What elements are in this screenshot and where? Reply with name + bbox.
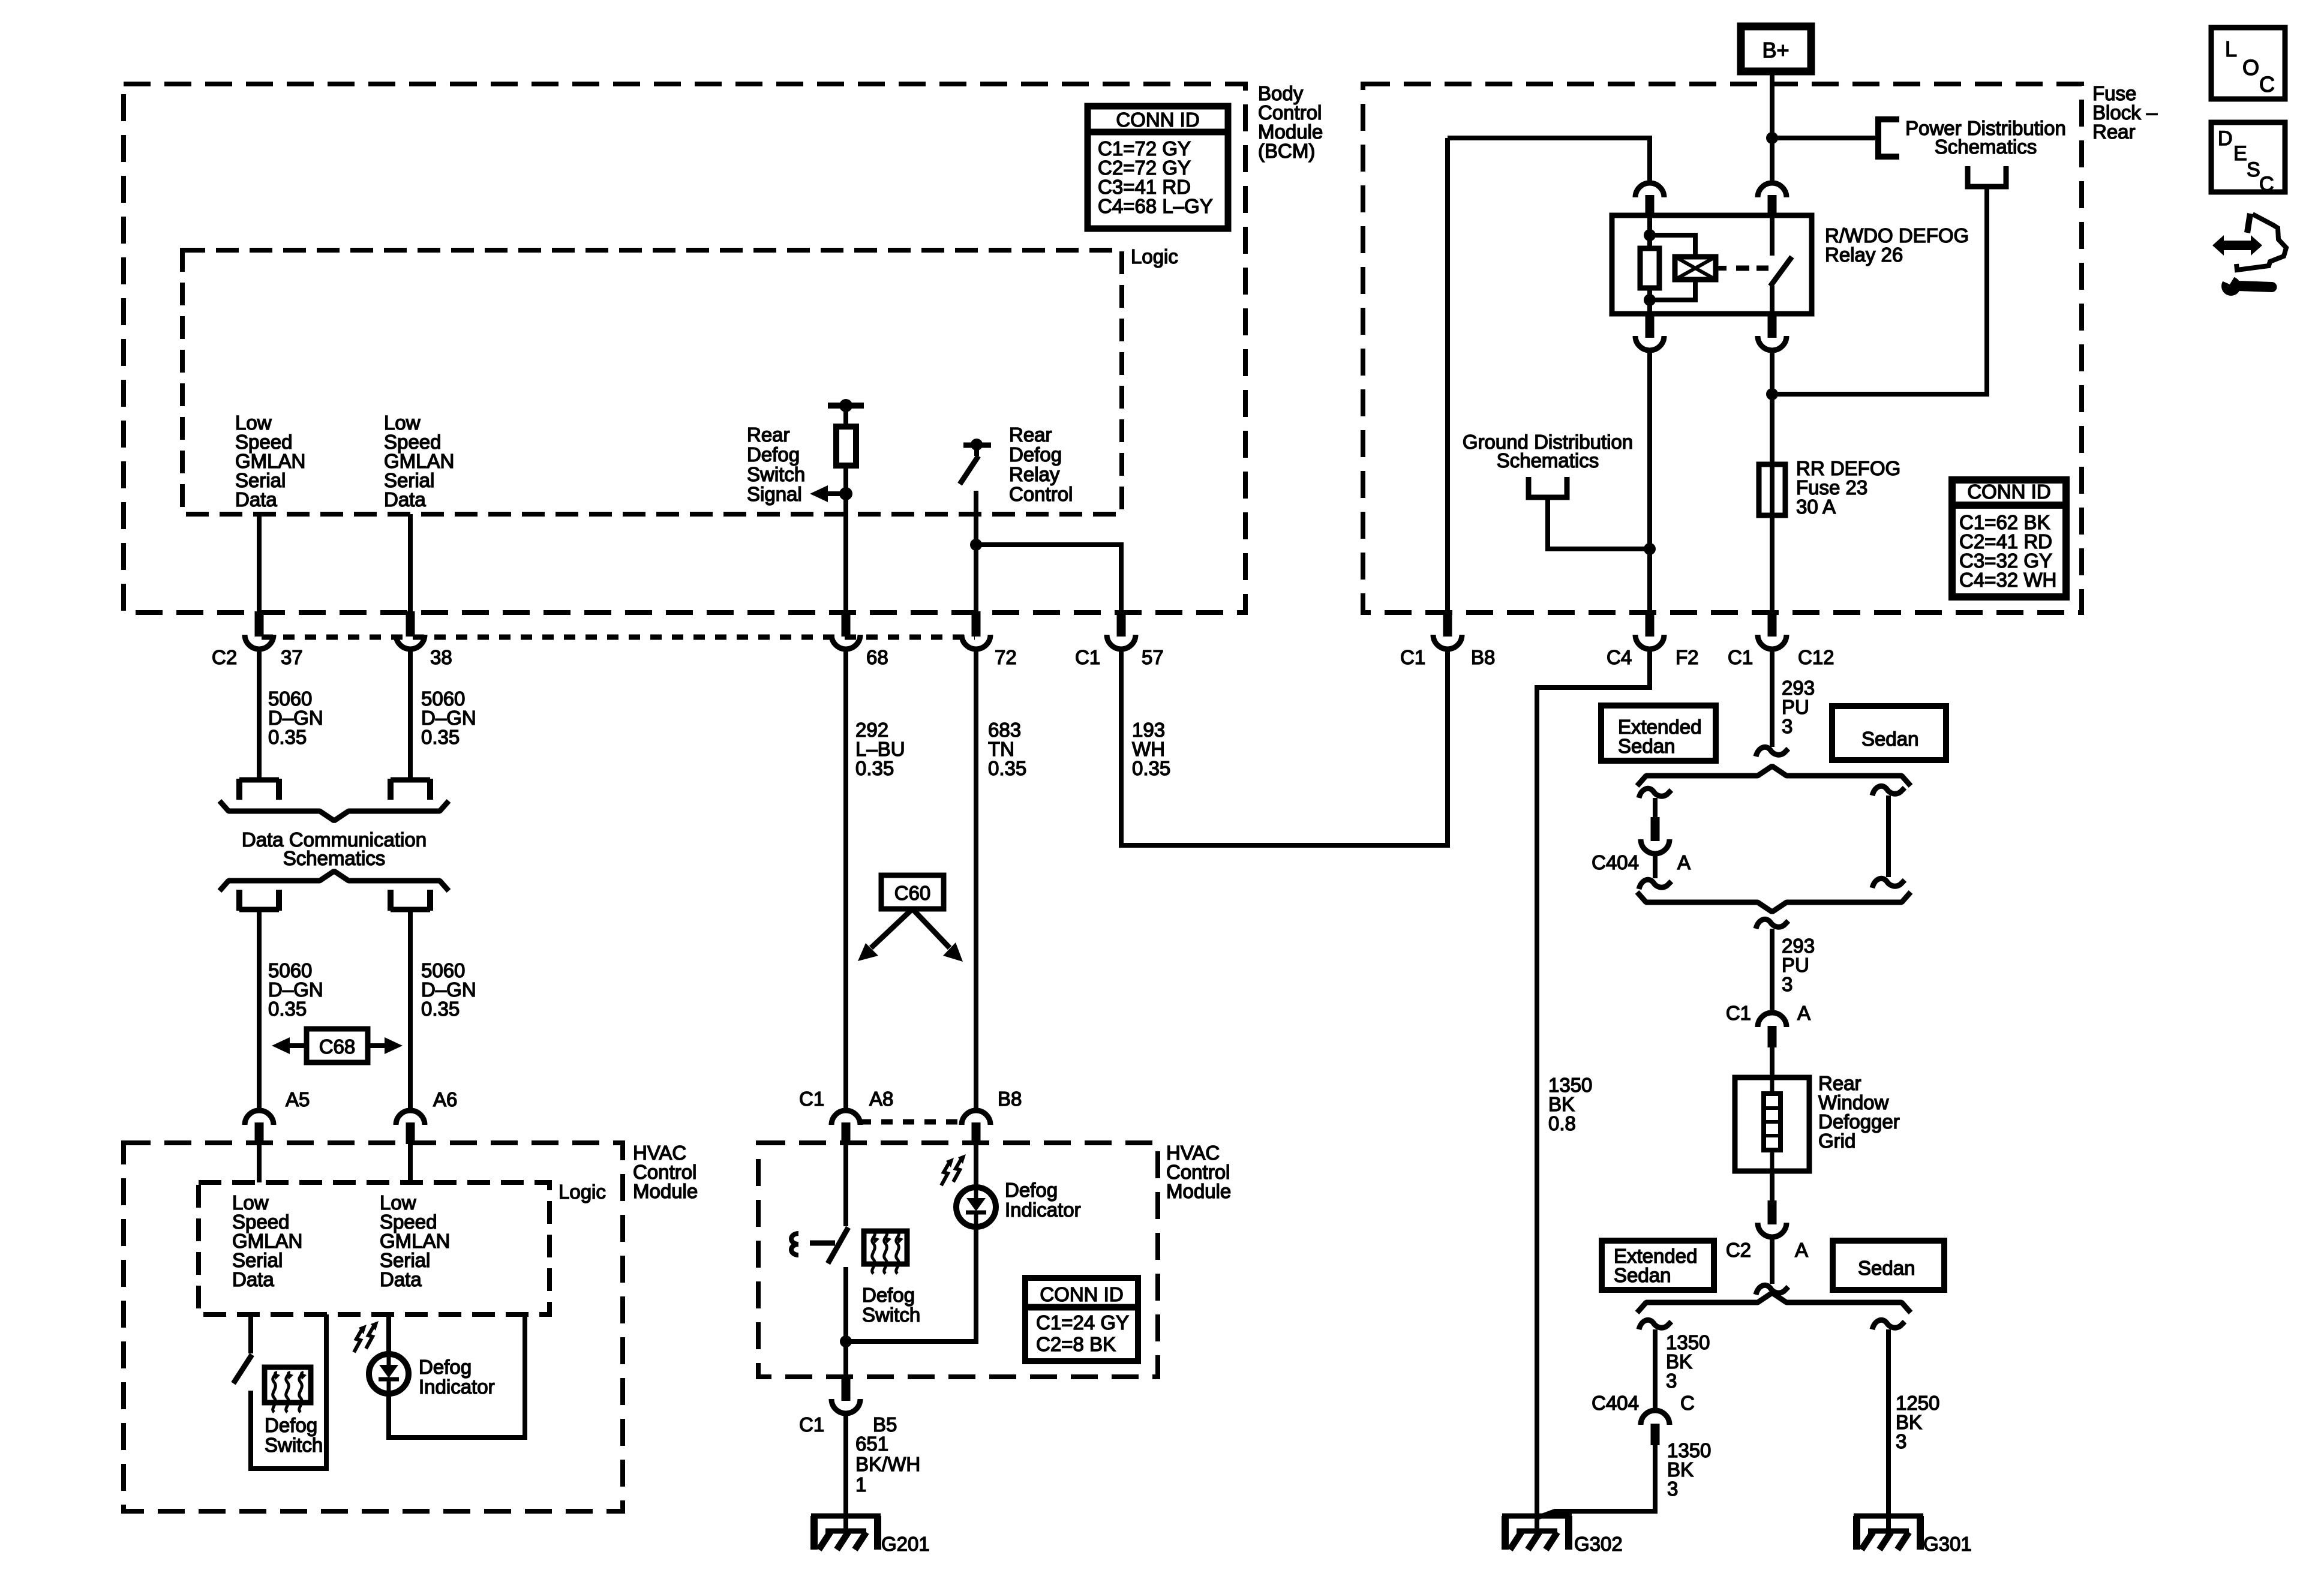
svg-text:Schematics: Schematics	[1935, 136, 2037, 158]
svg-text:Signal: Signal	[747, 483, 802, 505]
wire GMLAN serial data 37	[257, 514, 262, 613]
connector pin relay switch supply (top right of relay)	[1758, 183, 1786, 197]
wire 1350 BK 0.8 from pin F2 to G302	[1537, 649, 1650, 1516]
svg-text:C4: C4	[1607, 646, 1632, 668]
off-page source symbol (wire A5)	[239, 907, 279, 912]
wire 5060 D-GN lower left	[257, 909, 262, 1110]
off-page destination cup (ground distribution)	[1529, 477, 1567, 497]
svg-text:B+: B+	[1762, 38, 1789, 62]
wire GMLAN serial data 38	[408, 514, 413, 613]
connector pin A8 (HVAC middle)	[831, 1110, 860, 1125]
svg-text:A5: A5	[286, 1088, 310, 1110]
component Rear Window Defogger Grid	[1735, 1077, 1809, 1171]
svg-text:Defog: Defog	[862, 1284, 915, 1306]
connector C68 pointer	[307, 1029, 368, 1062]
BCM internal switch node bar (relay control)	[963, 443, 991, 448]
svg-text:C: C	[2259, 173, 2274, 196]
svg-text:0.35: 0.35	[421, 726, 460, 748]
wire 5060 D-GN upper right	[408, 649, 413, 779]
connector C404 C (inline)	[1641, 1410, 1670, 1425]
wire 293 PU from pin C12	[1770, 649, 1774, 747]
module box: Body Control Module (BCM), dashed outline	[124, 84, 1245, 613]
svg-text:C1=24 GY: C1=24 GY	[1036, 1311, 1129, 1334]
svg-text:0.35: 0.35	[268, 998, 307, 1020]
svg-text:E: E	[2233, 142, 2247, 165]
wire break extended sedan branch top	[1639, 788, 1671, 798]
wire 193 WH from BCM 57 to fuse block B8	[1121, 649, 1448, 845]
defog switch icon (HVAC left)	[265, 1367, 311, 1403]
wire break below C12	[1756, 747, 1788, 757]
connector pin B8 (HVAC middle)	[962, 1110, 990, 1125]
ground option split brace	[1637, 1293, 1911, 1313]
connector table CONN ID (HVAC middle)	[1025, 1278, 1138, 1361]
svg-text:Switch: Switch	[862, 1304, 920, 1326]
svg-text:0.35: 0.35	[855, 757, 894, 779]
svg-text:Schematics: Schematics	[283, 847, 386, 869]
svg-text:C4=32 WH: C4=32 WH	[1959, 569, 2056, 591]
module box: BCM internal Logic, dashed outline	[182, 250, 1122, 514]
svg-text:Data: Data	[232, 1268, 274, 1290]
wire 1250 BK to G301	[1886, 1329, 1891, 1516]
svg-text:C1: C1	[799, 1088, 824, 1110]
svg-text:Grid: Grid	[1818, 1130, 1855, 1152]
relay switch contact	[1770, 215, 1774, 256]
connector table CONN ID (BCM)	[1088, 106, 1228, 229]
connector pin C1 57 (BCM)	[1117, 611, 1126, 637]
legend icon DESC	[2211, 122, 2285, 192]
defog indicator LED (left)	[386, 1314, 391, 1354]
svg-text:C12: C12	[1798, 646, 1834, 668]
wire relay coil return to pin F2	[1647, 350, 1652, 613]
connector pin 38 (BCM)	[406, 611, 415, 637]
relay R/WDO DEFOG Relay 26 box	[1612, 215, 1812, 314]
wire break below merge	[1756, 919, 1788, 929]
relay mechanical link dashes	[1736, 266, 1749, 271]
connector pin C1 A (defogger grid)	[1758, 1013, 1786, 1027]
connector line C2 (dotted)	[262, 635, 975, 640]
option box Extended Sedan (lower)	[1602, 1241, 1714, 1290]
node junction coil return / ground distribution	[1644, 543, 1656, 555]
svg-text:B8: B8	[1471, 646, 1495, 668]
svg-text:C2: C2	[1726, 1239, 1751, 1261]
svg-text:3: 3	[1782, 715, 1792, 737]
module box: HVAC Logic (left), dashed outline	[199, 1182, 550, 1314]
svg-text:Module: Module	[633, 1180, 698, 1202]
svg-text:C4=68 L–GY: C4=68 L–GY	[1098, 195, 1213, 217]
module box: HVAC Control Module (middle), dashed outline	[758, 1143, 1158, 1377]
svg-text:Defog: Defog	[419, 1356, 472, 1378]
svg-text:0.35: 0.35	[1132, 757, 1170, 779]
svg-text:Relay 26: Relay 26	[1825, 244, 1903, 266]
svg-text:Logic: Logic	[1131, 245, 1178, 268]
defog switch fixed contact (HVAC middle)	[791, 1233, 798, 1255]
svg-text:3: 3	[1782, 973, 1792, 995]
option merge brace	[1637, 892, 1911, 912]
svg-text:O: O	[2242, 55, 2259, 80]
wire ground distribution tie	[1548, 497, 1650, 549]
node relay coil top	[1644, 229, 1656, 241]
wire relay switch output to fuse and pin C12	[1770, 350, 1774, 613]
wire break ground branch left	[1639, 1320, 1671, 1329]
node rear defog switch signal	[839, 487, 852, 500]
svg-text:D: D	[2218, 127, 2233, 150]
node junction relay control / feedback	[970, 539, 982, 551]
wire to pin B5	[843, 1341, 848, 1377]
svg-text:C1: C1	[1728, 646, 1753, 668]
svg-text:C1: C1	[1075, 646, 1100, 668]
connector pin 68 (BCM)	[842, 611, 851, 637]
svg-text:Logic: Logic	[559, 1181, 606, 1203]
svg-text:S: S	[2247, 158, 2260, 181]
connector pin C4 F2 (fuse block)	[1646, 611, 1655, 637]
svg-text:B8: B8	[998, 1088, 1022, 1110]
svg-text:CONN ID: CONN ID	[1967, 481, 2050, 503]
svg-text:BK/WH: BK/WH	[855, 1453, 920, 1475]
svg-text:0.35: 0.35	[988, 757, 1026, 779]
connector pin relay coil return (bottom left)	[1646, 313, 1655, 338]
legend icon LOC	[2211, 28, 2285, 99]
wire 5060 D-GN upper left	[257, 649, 262, 779]
relay coil winding symbol	[1650, 235, 1695, 257]
ground G302	[1502, 1514, 1572, 1519]
svg-text:57: 57	[1142, 646, 1164, 668]
svg-text:F2: F2	[1676, 646, 1699, 668]
svg-text:Switch: Switch	[265, 1434, 323, 1456]
wire break extended sedan branch bottom	[1639, 879, 1671, 889]
wire relay control feedback to pin 57	[976, 545, 1121, 613]
option box Sedan (upper)	[1832, 706, 1946, 760]
svg-text:Data: Data	[384, 488, 426, 511]
wire break above ground split	[1756, 1285, 1788, 1295]
wire defogger grid to C2 A	[1770, 1171, 1774, 1203]
svg-text:Relay: Relay	[1009, 463, 1060, 485]
svg-text:Defog: Defog	[265, 1414, 317, 1436]
wire 292 L-BU (pin 68 to HVAC A8)	[843, 649, 848, 1110]
svg-text:3: 3	[1666, 1370, 1677, 1392]
wire break sedan branch bottom	[1872, 878, 1905, 888]
option split brace (extended sedan / sedan)	[1637, 766, 1911, 786]
svg-text:C404: C404	[1592, 851, 1639, 873]
wire A6 into logic	[408, 1143, 413, 1182]
svg-text:(BCM): (BCM)	[1258, 140, 1315, 162]
connector pin C1 B8 (fuse block)	[1443, 611, 1452, 637]
svg-text:Switch: Switch	[747, 463, 805, 485]
svg-text:3: 3	[1896, 1430, 1906, 1452]
svg-text:Defog: Defog	[1009, 443, 1062, 466]
svg-text:Indicator: Indicator	[419, 1376, 495, 1398]
option box Extended Sedan (upper)	[1601, 706, 1716, 761]
wire extended sedan branch to C404	[1653, 798, 1658, 820]
svg-text:C: C	[2259, 72, 2275, 97]
svg-text:Sedan: Sedan	[1614, 1264, 1671, 1286]
power terminal B+	[1741, 26, 1811, 71]
svg-text:C2: C2	[212, 646, 237, 668]
svg-text:G302: G302	[1574, 1533, 1623, 1555]
connector pin relay switch output (bottom right)	[1768, 313, 1777, 338]
svg-text:Module: Module	[1166, 1180, 1231, 1202]
defog switch icon (HVAC middle)	[864, 1231, 907, 1264]
node relay coil bottom	[1644, 294, 1656, 306]
relay coil resistor	[1647, 215, 1652, 248]
svg-text:A: A	[1795, 1239, 1808, 1261]
svg-text:C2=8 BK: C2=8 BK	[1036, 1333, 1116, 1355]
svg-text:G301: G301	[1923, 1533, 1972, 1555]
svg-text:C1: C1	[1726, 1002, 1751, 1024]
BCM internal node bar (switch signal pull-up)	[828, 403, 864, 409]
defog switch (HVAC middle)	[843, 1143, 848, 1226]
svg-text:Sedan: Sedan	[1861, 728, 1918, 750]
wire fuse block output to pin B8	[1445, 138, 1450, 613]
svg-text:Rear: Rear	[747, 424, 790, 446]
wire 651 BK/WH to G201	[843, 1413, 848, 1516]
svg-text:Rear: Rear	[1009, 424, 1052, 446]
svg-text:CONN ID: CONN ID	[1116, 109, 1199, 131]
wire 293 PU to defogger grid connector	[1770, 929, 1774, 1013]
svg-text:C1: C1	[1400, 646, 1425, 668]
svg-text:3: 3	[1667, 1478, 1678, 1500]
svg-text:C60: C60	[894, 882, 931, 904]
fuse RR DEFOG Fuse 23 30 A	[1759, 464, 1785, 515]
svg-text:Data: Data	[380, 1268, 422, 1290]
svg-text:A8: A8	[869, 1088, 893, 1110]
wire C404 C to G302	[1537, 1444, 1655, 1518]
svg-text:C: C	[1680, 1392, 1695, 1414]
svg-text:C404: C404	[1592, 1392, 1639, 1414]
svg-text:68: 68	[866, 646, 888, 668]
module box: HVAC Control Module (left), dashed outline	[124, 1143, 623, 1511]
wire into defogger grid	[1770, 1047, 1774, 1077]
option box Sedan (lower)	[1833, 1241, 1944, 1290]
connector pin C2 37 (BCM)	[255, 611, 264, 637]
off-page destination cup (power distribution feed)	[1968, 166, 2006, 187]
off-page pointer Power Distribution Schematics	[1878, 119, 1899, 157]
defog indicator LED (middle)	[974, 1143, 978, 1187]
node junction switch / indicator return	[840, 1335, 852, 1347]
wire 683 TN (pin 72 to HVAC B8)	[974, 649, 978, 1110]
wire 1350 BK to C404 C	[1653, 1329, 1658, 1410]
wire break ground branch right	[1872, 1320, 1905, 1329]
svg-text:651: 651	[855, 1433, 888, 1455]
svg-text:0.8: 0.8	[1548, 1112, 1576, 1134]
svg-text:L: L	[2225, 37, 2237, 61]
BCM relay control driver switch	[974, 445, 979, 456]
svg-text:38: 38	[430, 646, 452, 668]
connector C404 A (inline)	[1651, 817, 1660, 841]
wire to Power Distribution Schematics pointer	[1772, 136, 1878, 140]
signal arrow rear defog switch signal	[828, 491, 846, 496]
connector pin relay coil supply (top left of relay)	[1635, 183, 1664, 197]
wire below C2 A	[1770, 1238, 1774, 1284]
ground G301	[1854, 1514, 1923, 1519]
svg-text:CONN ID: CONN ID	[1040, 1283, 1123, 1305]
wire 5060 D-GN lower right	[408, 909, 413, 1110]
ground G201	[811, 1514, 881, 1519]
svg-text:Defog: Defog	[747, 443, 800, 466]
off-page destination symbol (wire 38)	[391, 778, 430, 783]
svg-text:0.35: 0.35	[268, 726, 307, 748]
connector pin C2 A (defogger grid return)	[1768, 1200, 1777, 1224]
wire B+ to relay switch	[1770, 71, 1774, 183]
svg-text:37: 37	[281, 646, 303, 668]
svg-text:Sedan: Sedan	[1618, 735, 1675, 757]
svg-text:1: 1	[855, 1473, 866, 1496]
connector C60 pointer	[881, 875, 944, 909]
connector pin A6 (HVAC)	[396, 1110, 425, 1125]
off-page source symbol (wire A6)	[391, 907, 430, 912]
svg-text:0.35: 0.35	[421, 998, 460, 1020]
connector pin A5 (HVAC)	[245, 1110, 274, 1125]
resistor (BCM internal)	[843, 406, 848, 427]
svg-text:Defog: Defog	[1005, 1179, 1058, 1201]
module box: Fuse Block - Rear, dashed outline	[1363, 84, 2082, 613]
svg-text:Rear: Rear	[2092, 121, 2136, 143]
svg-text:Indicator: Indicator	[1005, 1199, 1081, 1221]
connector pin C1 C12 (fuse block)	[1768, 611, 1777, 637]
svg-text:A: A	[1677, 851, 1691, 873]
svg-text:A6: A6	[433, 1088, 457, 1110]
svg-text:Control: Control	[1009, 483, 1073, 505]
svg-text:Schematics: Schematics	[1497, 449, 1599, 472]
wire break sedan branch top	[1872, 786, 1905, 795]
svg-text:Sedan: Sedan	[1858, 1257, 1915, 1279]
wire sedan branch (bypass)	[1886, 795, 1891, 877]
legend icon adjustable component (arrow and wrench)	[2212, 235, 2262, 256]
connector line C1 (dotted, HVAC middle)	[860, 1119, 963, 1125]
svg-text:A: A	[1797, 1002, 1810, 1024]
defog switch (HVAC left)	[248, 1314, 253, 1353]
svg-text:C68: C68	[319, 1035, 356, 1058]
wire power distribution feed down to fuse	[1772, 187, 1987, 394]
off-page destination symbol (wire 37)	[239, 778, 279, 783]
connector pin 72 (BCM)	[972, 611, 981, 637]
wire relay coil supply (B+ branch to coil)	[1448, 138, 1650, 183]
node junction B+ / power distribution	[1766, 132, 1778, 144]
connector pin C1 B5 (HVAC middle)	[842, 1376, 851, 1401]
svg-text:72: 72	[995, 646, 1017, 668]
wire below C404 A	[1653, 854, 1658, 878]
grouping brace from data communication	[220, 871, 449, 891]
node junction relay output / power feed	[1766, 388, 1778, 400]
svg-text:G201: G201	[881, 1533, 930, 1555]
grouping brace to data communication	[220, 801, 449, 821]
connector table CONN ID (Fuse Block)	[1952, 480, 2066, 597]
svg-text:30 A: 30 A	[1796, 496, 1836, 518]
wire A5 into logic	[257, 1143, 262, 1182]
svg-text:Data: Data	[235, 488, 277, 511]
svg-text:C1: C1	[799, 1413, 824, 1436]
